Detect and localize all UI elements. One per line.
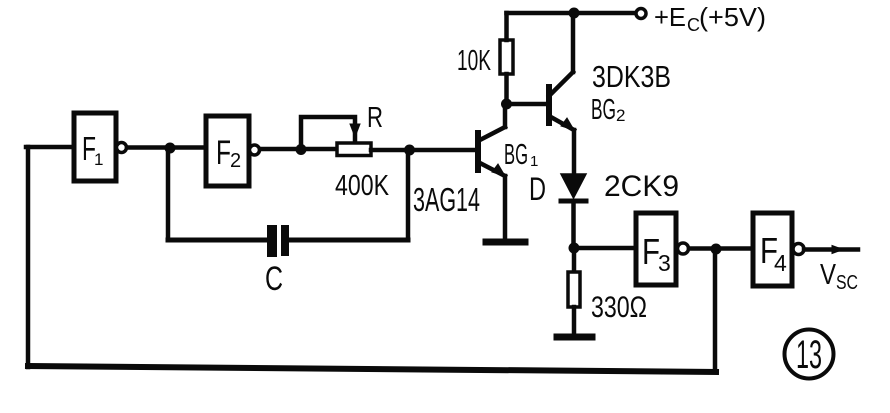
svg-text:D: D	[529, 171, 546, 207]
inverter F3	[636, 213, 676, 285]
node: supply rail junction at BG2 collector	[569, 8, 580, 19]
svg-text:4: 4	[774, 250, 787, 276]
wire: R to BG1 base	[371, 148, 477, 153]
svg-text:+E: +E	[654, 2, 686, 32]
wire: junction to F3 input	[574, 246, 636, 251]
svg-text:330Ω: 330Ω	[591, 291, 647, 324]
wire: bottom feedback rail	[28, 366, 716, 372]
output bubble F2	[250, 145, 260, 155]
output bubble F4	[793, 244, 804, 255]
svg-text:1: 1	[530, 153, 538, 170]
svg-text:V: V	[820, 259, 837, 291]
svg-text:R: R	[367, 102, 383, 134]
wire: junction down to capacitor right side	[406, 150, 411, 240]
svg-text:F: F	[216, 134, 231, 172]
output bubble F1	[117, 143, 127, 153]
svg-text:(+5V): (+5V)	[699, 2, 766, 32]
label 2CK9	[604, 170, 679, 203]
inverter F4	[753, 213, 792, 286]
output bubble F3	[678, 243, 689, 254]
wire: 330 ohm bottom lead	[572, 307, 577, 334]
svg-text:3DK3B: 3DK3B	[592, 59, 671, 94]
svg-text:2: 2	[616, 106, 625, 125]
label +Ec(+5V)	[654, 2, 766, 35]
wire: left feedback vertical from bottom rail to F1 input	[26, 147, 31, 367]
wire: junction down to 330 ohm resistor	[572, 248, 577, 272]
node: BG1 collector / BG2 base junction	[501, 99, 512, 110]
label 400K	[335, 170, 390, 202]
wire: capacitor right lead	[288, 238, 408, 243]
svg-text:C: C	[265, 260, 283, 298]
transistor BG1	[478, 104, 505, 240]
wire: junction to BG2 base	[507, 102, 550, 107]
label 330 ohm	[591, 291, 647, 324]
wire: F4 output with arrow	[804, 246, 858, 254]
capacitor C	[267, 225, 289, 257]
node: junction between F1 and F2	[165, 143, 176, 154]
svg-text:2: 2	[230, 150, 241, 172]
svg-text:2CK9: 2CK9	[604, 170, 679, 203]
resistor 330 ohm body	[568, 272, 580, 307]
svg-text:BG: BG	[591, 94, 616, 126]
node: junction at capacitor top right	[404, 145, 415, 156]
terminal: +Ec open circle	[636, 9, 646, 19]
svg-text:SC: SC	[836, 272, 858, 294]
svg-text:1: 1	[94, 150, 103, 169]
inverter F2	[206, 116, 249, 186]
diode D	[561, 174, 586, 248]
label 10K	[457, 45, 491, 77]
wire: junction down to capacitor row	[166, 148, 171, 240]
label BG2	[591, 94, 625, 126]
wire: 10K top lead	[504, 13, 509, 40]
label D	[529, 171, 546, 207]
svg-text:13: 13	[796, 333, 822, 377]
wire: F1 output to F2 input	[127, 145, 206, 150]
ground: BG1 emitter	[486, 239, 525, 246]
wire: capacitor left lead	[168, 238, 268, 243]
wire: +Ec supply rail	[507, 11, 636, 16]
node: junction at R left	[296, 144, 307, 155]
label 3AG14	[413, 181, 480, 218]
node: junction between F3 and F4	[711, 244, 722, 255]
label 3DK3B	[592, 59, 671, 94]
resistor R body	[337, 143, 371, 156]
label BG1	[504, 139, 538, 171]
svg-text:3AG14: 3AG14	[413, 181, 480, 218]
label Vsc	[820, 259, 858, 294]
svg-text:400K: 400K	[335, 170, 390, 202]
wire: F1 input	[26, 145, 74, 150]
svg-text:BG: BG	[504, 139, 528, 171]
figure number 13 in circle	[785, 330, 834, 379]
transistor BG2	[549, 13, 574, 174]
wire: 10K bottom lead to BG1 collector node	[504, 74, 509, 104]
inverter F1	[74, 113, 116, 181]
label R	[367, 102, 383, 134]
svg-text:10K: 10K	[457, 45, 491, 77]
svg-text:3: 3	[658, 250, 671, 276]
label C	[265, 260, 283, 298]
ground: below 330 ohm	[557, 334, 592, 341]
node: diode cathode junction	[569, 243, 580, 254]
resistor 10K body	[500, 40, 513, 74]
wire: junction down to bottom feedback rail	[713, 249, 718, 371]
wire: wiper loop of adjustable resistor R	[301, 117, 360, 149]
wire: F2 output to resistor R	[260, 147, 340, 152]
wire: F3 output to F4 input	[689, 246, 753, 251]
